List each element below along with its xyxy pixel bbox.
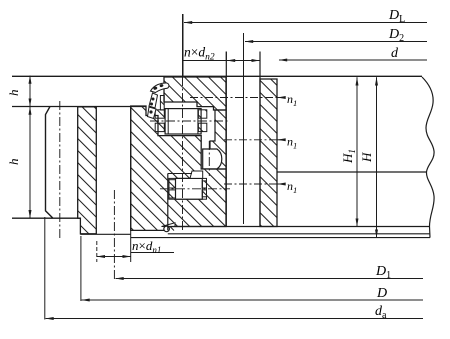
dim H1 [340, 77, 357, 226]
upper roller row pocket [155, 109, 207, 134]
n1 leader row 2 [278, 135, 298, 151]
svg-text:da: da [375, 304, 387, 321]
n1 leader row 1 [278, 92, 298, 108]
dim H [359, 77, 377, 237]
cage squares upper row [155, 110, 164, 118]
shim plate bottom [131, 237, 430, 239]
upper bolt axis [59, 101, 61, 240]
svg-text:D1: D1 [375, 264, 391, 281]
grease hole row 3 [224, 183, 277, 185]
small step notch above lower roller [190, 171, 203, 178]
grease hole row 1 [190, 97, 277, 99]
outer ring left hatched column H1 [78, 107, 97, 234]
cage squares lower row [169, 180, 176, 188]
lower roller row pocket [169, 178, 207, 199]
middle roller axis [208, 141, 210, 176]
svg-text:n×dn1: n×dn1 [132, 238, 161, 255]
dim h large [6, 107, 30, 219]
grease hole column H5 [260, 79, 277, 227]
svg-text:h: h [6, 159, 21, 166]
svg-text:DL: DL [388, 8, 405, 25]
support joint line [278, 171, 427, 173]
lower bolt axis [113, 190, 115, 279]
dim d [279, 46, 427, 61]
hole right wall [130, 106, 132, 230]
grease hole row 2 [224, 139, 277, 141]
dim D1 [116, 264, 424, 281]
hole wall right x=260 [259, 52, 261, 227]
svg-text:H: H [359, 152, 374, 163]
roller pitch axis DL [182, 14, 184, 77]
dark band at seal root [160, 96, 164, 111]
extension line dn2 left [225, 52, 227, 61]
bottom seal [162, 223, 176, 232]
break line wavy [422, 77, 434, 238]
svg-text:H1: H1 [340, 149, 357, 164]
dim da [45, 217, 423, 321]
svg-text:n1: n1 [287, 179, 297, 195]
dim D2 [245, 27, 427, 44]
top surface line [12, 75, 422, 77]
outer ring left profile [46, 107, 54, 219]
extension line DL [182, 14, 184, 76]
seal chain [149, 93, 158, 108]
lower roller centerline [160, 188, 230, 190]
svg-text:n1: n1 [287, 92, 297, 108]
svg-text:n×dn2: n×dn2 [184, 45, 215, 63]
dim n x dn2 [183, 45, 260, 63]
svg-text:n1: n1 [287, 135, 297, 151]
middle roller row [203, 149, 222, 169]
bolt hole axis line D2 [243, 33, 245, 224]
svg-text:D: D [376, 286, 387, 301]
hole wall left x=226 [225, 52, 227, 227]
top seal wiper flag [148, 83, 169, 119]
outer ring bottom line [12, 217, 80, 219]
n1 leader row 3 [278, 179, 298, 195]
upper inner ring block H3 [164, 77, 226, 110]
bottom surface line [168, 226, 429, 228]
svg-text:h: h [6, 90, 21, 97]
inner ring tail H4 [210, 110, 226, 169]
shim plate top [80, 233, 130, 235]
svg-text:D2: D2 [388, 27, 404, 44]
middle-left ring mass H2 [131, 106, 226, 230]
dim D [81, 236, 423, 301]
svg-text:d: d [391, 46, 399, 61]
dim h small [6, 76, 30, 107]
seam between rings lower [167, 174, 169, 231]
upper roller centerline [150, 120, 230, 122]
dim n x dn1 [97, 231, 174, 262]
outer ring top line [12, 106, 146, 108]
dim DL [184, 8, 427, 25]
